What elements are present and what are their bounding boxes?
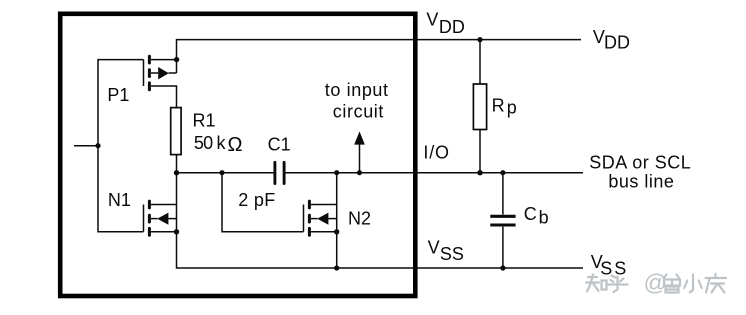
svg-text:C1: C1 [268,135,291,155]
svg-text:50 k: 50 k [194,133,227,153]
svg-text:SS: SS [600,259,628,279]
svg-text:N2: N2 [348,208,371,228]
svg-text:V: V [428,238,440,258]
svg-text:R: R [492,96,505,116]
svg-text:@: @ [644,270,668,296]
svg-text:SDA or SCL: SDA or SCL [589,152,691,172]
svg-text:Ω: Ω [228,134,243,156]
svg-text:p: p [507,97,517,117]
svg-text:DD: DD [439,17,465,37]
svg-text:C: C [524,204,537,224]
svg-text:to input: to input [325,80,389,100]
svg-text:bus line: bus line [608,172,674,192]
svg-text:R1: R1 [193,110,216,130]
svg-text:SS: SS [440,244,464,264]
svg-text:N1: N1 [108,190,131,210]
svg-text:2 pF: 2 pF [238,190,275,210]
svg-text:DD: DD [604,32,630,52]
svg-text:circuit: circuit [333,101,384,121]
svg-text:P1: P1 [107,85,129,105]
svg-text:I/O: I/O [423,142,449,162]
svg-text:V: V [426,10,438,30]
svg-text:b: b [539,207,549,227]
